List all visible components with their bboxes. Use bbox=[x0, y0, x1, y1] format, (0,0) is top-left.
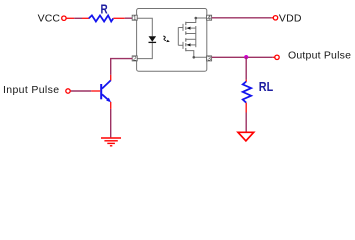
transistor Q1 base bar bbox=[100, 84, 102, 99]
junction node bbox=[244, 55, 248, 59]
terminal Output Pulse bbox=[275, 55, 279, 59]
resistor RL bbox=[243, 82, 252, 103]
photoMOS gate bus bbox=[177, 28, 179, 46]
mosfet M2 channel bbox=[185, 38, 187, 51]
pin 2 bbox=[132, 56, 137, 61]
mosfet M1 channel bbox=[185, 22, 187, 35]
svg-text:4: 4 bbox=[207, 15, 211, 22]
pin 3 bbox=[207, 56, 212, 61]
RL top stub bbox=[245, 80, 247, 82]
terminal Input Pulse bbox=[66, 89, 70, 93]
net wire into pin 1 bbox=[125, 17, 133, 19]
mosfet M2 drain lead bbox=[186, 51, 207, 58]
net pin 4 to VDD bbox=[212, 17, 272, 19]
net RL to ground bbox=[245, 113, 247, 132]
mosfet M2 gate stub bbox=[178, 44, 183, 46]
net VCC to R bbox=[74, 17, 82, 19]
terminal VDD bbox=[273, 16, 277, 20]
LED cathode wire bbox=[137, 43, 152, 59]
resistor R bbox=[89, 15, 114, 21]
mosfet M1 gate plate bbox=[182, 24, 184, 31]
VDD port pin stub bbox=[271, 17, 273, 19]
svg-text:VCC: VCC bbox=[38, 12, 61, 24]
svg-text:1: 1 bbox=[133, 15, 137, 22]
ground triangle symbol bbox=[238, 132, 254, 141]
net pin 3 to Output Pulse bbox=[212, 56, 273, 58]
wire rail to pin 4 bbox=[196, 17, 207, 19]
ground earth symbol bbox=[101, 138, 121, 146]
wire VCC port pin bbox=[66, 17, 74, 19]
Q1 base pin stub bbox=[91, 90, 100, 92]
svg-text:VDD: VDD bbox=[279, 12, 302, 24]
junction dot drain M2 bbox=[193, 56, 196, 59]
Q1 emitter stub bbox=[110, 102, 112, 109]
mosfet M1 gate stub bbox=[178, 27, 183, 29]
red stub R right bbox=[113, 17, 124, 19]
IC U1 photoMOS body bbox=[137, 9, 207, 72]
transistor Q1 emitter arrow bbox=[106, 98, 111, 103]
Output port pin stub bbox=[273, 56, 275, 58]
pin 1 bbox=[132, 15, 137, 20]
transistor Q1 collector bbox=[102, 80, 111, 88]
junction dot drain M1 bbox=[195, 17, 198, 20]
svg-text:R: R bbox=[101, 1, 109, 16]
svg-text:2: 2 bbox=[133, 56, 137, 63]
LED anode wire bbox=[137, 18, 152, 36]
light arrow bbox=[163, 36, 166, 41]
svg-text:Output Pulse: Output Pulse bbox=[288, 50, 351, 62]
R left pin stub bbox=[82, 17, 89, 19]
mosfet M2 gate plate bbox=[182, 42, 184, 49]
LED D1 bbox=[149, 36, 157, 42]
net Input Pulse to Q1 base bbox=[71, 90, 92, 92]
terminal VCC bbox=[62, 16, 66, 20]
svg-text:3: 3 bbox=[207, 56, 211, 63]
RL bottom stub bbox=[245, 103, 247, 113]
pin 4 bbox=[207, 15, 212, 20]
net pin 2 to Q1 collector bbox=[111, 59, 133, 75]
mosfet M2 source lead bbox=[186, 38, 196, 40]
Q1 collector stub bbox=[110, 75, 112, 81]
LED cathode bar bbox=[149, 41, 157, 43]
net Q1 emitter to ground bbox=[110, 109, 112, 137]
mosfet M2 bulk arrow bbox=[186, 43, 190, 46]
mosfet M1 drain lead bbox=[186, 18, 196, 23]
common source rail bbox=[195, 26, 197, 47]
net junction to RL bbox=[245, 57, 247, 79]
mosfet M1 bulk arrow bbox=[186, 27, 190, 30]
svg-text:Input Pulse: Input Pulse bbox=[3, 84, 59, 96]
transistor Q1 emitter bbox=[102, 94, 110, 101]
mosfet M1 source lead bbox=[186, 33, 196, 35]
svg-text:RL: RL bbox=[259, 79, 273, 94]
